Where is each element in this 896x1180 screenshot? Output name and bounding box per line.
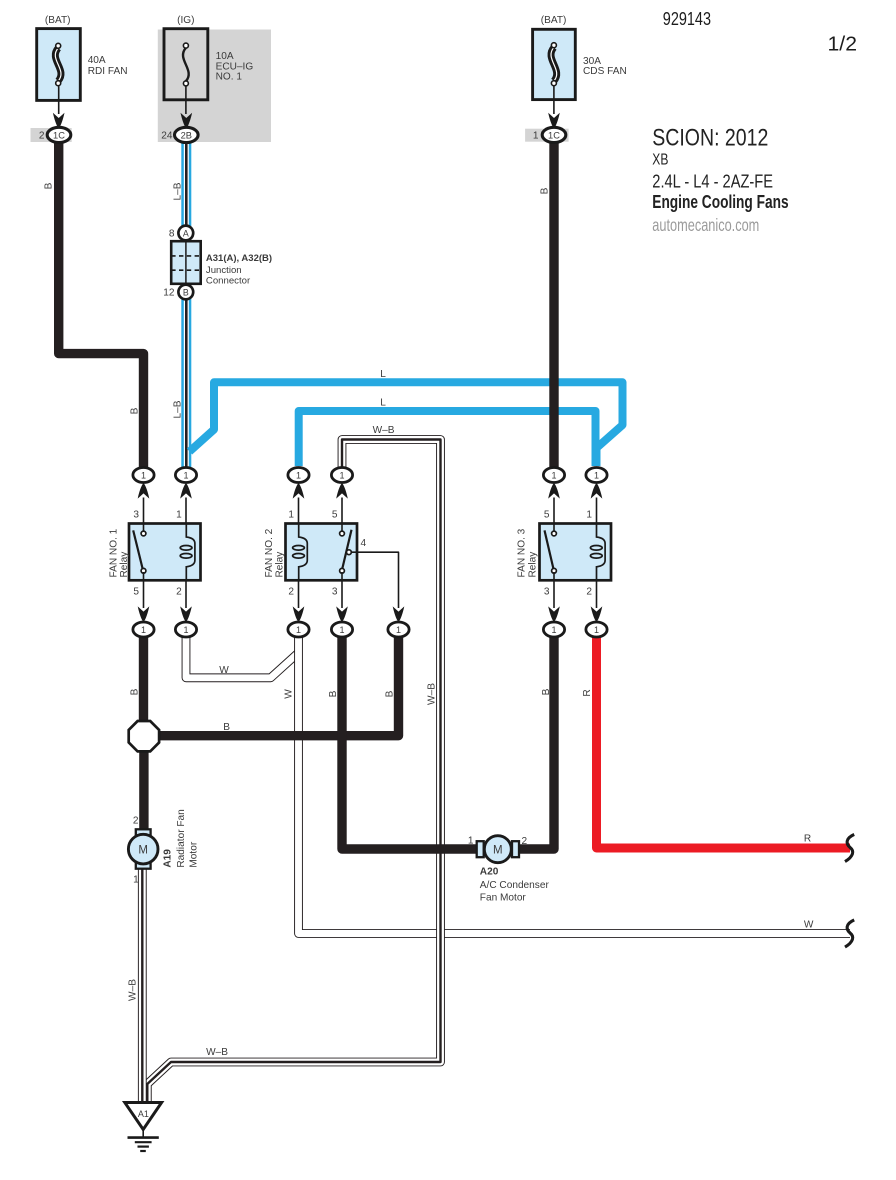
svg-text:L: L: [380, 398, 386, 409]
gray band behind connector 1C (right): [525, 129, 569, 142]
svg-text:CDS FAN: CDS FAN: [583, 66, 627, 77]
lead from fuse F1 to connector: [58, 86, 60, 114]
svg-text:3: 3: [332, 587, 338, 598]
svg-text:40A: 40A: [88, 55, 106, 66]
svg-text:A: A: [183, 228, 189, 238]
svg-text:automecanico.com: automecanico.com: [652, 215, 759, 235]
arrow up into oval: [138, 483, 150, 499]
relay K3 coil: [597, 524, 606, 581]
arrow up into oval: [336, 483, 348, 499]
svg-text:(IG): (IG): [177, 15, 194, 26]
connector oval 2B: [175, 127, 199, 142]
svg-text:1: 1: [288, 509, 294, 520]
svg-text:A1: A1: [138, 1109, 149, 1119]
svg-text:B: B: [328, 690, 339, 697]
connector oval below relay at x=298.5: [288, 622, 309, 637]
svg-text:B: B: [130, 688, 141, 695]
connector oval 1C right: [542, 127, 566, 142]
relay K3 switch: [553, 524, 555, 532]
svg-text:1: 1: [396, 625, 401, 635]
lead to relay: [185, 498, 187, 525]
svg-text:1: 1: [183, 470, 188, 480]
svg-text:W–B: W–B: [426, 683, 437, 705]
connector oval below relay at x=554: [543, 622, 564, 637]
junction node octagon: [129, 721, 159, 751]
svg-text:1: 1: [339, 470, 344, 480]
svg-text:A20: A20: [480, 867, 499, 878]
svg-text:RDI FAN: RDI FAN: [88, 66, 128, 77]
lead from relay down at x=596.5: [596, 580, 598, 608]
svg-text:B: B: [223, 722, 230, 733]
relay K1 coil: [186, 524, 195, 581]
connector oval above relay at x=143.5: [133, 468, 154, 483]
arrow up into oval: [293, 483, 305, 499]
junction connector A31(A) A32(B): [171, 241, 201, 284]
svg-text:1: 1: [133, 875, 139, 886]
arrow up into oval: [180, 483, 192, 499]
svg-text:B: B: [130, 407, 141, 414]
wire L-B from junction connector to relay1 pin1: [181, 297, 191, 467]
svg-text:Engine Cooling Fans: Engine Cooling Fans: [652, 192, 788, 212]
svg-text:1C: 1C: [548, 130, 560, 140]
svg-text:1: 1: [586, 509, 592, 520]
wire L-B from connector 2B to junction connector: [181, 140, 191, 228]
wire B bus from junction node to relay2 pin4: [156, 636, 399, 736]
arrow down into oval: [591, 606, 603, 622]
gray band behind connector 1C (left): [31, 128, 72, 142]
motor A19 radiator fan motor: [136, 829, 151, 836]
lead from fuse F2 to connector: [185, 86, 187, 114]
svg-text:FAN NO. 1: FAN NO. 1: [108, 528, 119, 577]
break symbol W wire: [845, 920, 854, 947]
svg-text:2: 2: [522, 836, 528, 847]
fuse F2 10A ECU-IG NO. 1: [164, 29, 208, 100]
svg-text:1: 1: [141, 470, 146, 480]
relay K2 FAN NO. 2 box: [286, 524, 358, 581]
wire W-B from motor A19 pin1 to ground A1: [138, 866, 147, 1101]
svg-text:W: W: [219, 665, 229, 676]
wire W from relay2 pin2 down and right to break: [299, 633, 851, 934]
fuse F1 40A RDI FAN: [37, 29, 81, 101]
svg-text:2: 2: [133, 816, 139, 827]
svg-text:W–B: W–B: [206, 1047, 228, 1058]
svg-text:1: 1: [533, 131, 539, 142]
connector oval below relay at x=398.5: [388, 622, 409, 637]
motor A20 A/C condenser fan motor: [477, 841, 484, 857]
svg-text:Relay: Relay: [119, 551, 130, 578]
lead from relay down at x=554: [553, 580, 555, 608]
arrow into connector 2B: [181, 113, 193, 129]
svg-text:5: 5: [332, 509, 338, 520]
wire B from junction node to motor A19 pin2: [139, 748, 148, 831]
svg-text:1: 1: [141, 625, 146, 635]
arrow down into oval: [336, 606, 348, 622]
svg-text:1: 1: [176, 509, 182, 520]
svg-text:2.4L - L4 - 2AZ-FE: 2.4L - L4 - 2AZ-FE: [652, 172, 773, 192]
svg-text:5: 5: [133, 587, 139, 598]
wire L from relay2 pin1 to relay3 pin1: [299, 411, 596, 466]
wire B from relay2 pin3 to motor A20 pin1: [342, 636, 478, 849]
svg-text:3: 3: [544, 587, 550, 598]
svg-text:24: 24: [161, 131, 173, 142]
svg-text:8: 8: [169, 229, 175, 240]
svg-text:1: 1: [468, 835, 474, 846]
connector oval above relay at x=298.5: [288, 468, 309, 483]
svg-text:SCION: 2012: SCION: 2012: [652, 124, 768, 151]
svg-text:12: 12: [163, 288, 175, 299]
relay K1 switch: [143, 524, 145, 532]
svg-text:XB: XB: [652, 152, 668, 169]
svg-text:FAN NO. 2: FAN NO. 2: [264, 528, 275, 577]
svg-text:B: B: [540, 187, 551, 194]
connector oval below relay at x=342: [331, 622, 352, 637]
svg-text:2: 2: [176, 587, 182, 598]
svg-text:R: R: [582, 689, 593, 696]
arrow down into oval: [138, 606, 150, 622]
svg-text:M: M: [138, 844, 148, 856]
svg-text:5: 5: [544, 509, 550, 520]
wire W-B loop from relay2 pin5 to ground A1: [147, 440, 440, 1102]
break symbol R wire: [845, 834, 854, 861]
connector oval above relay at x=596.5: [586, 468, 607, 483]
svg-text:L–B: L–B: [173, 182, 184, 200]
junction pin circle A: [178, 226, 193, 241]
arrow down into oval: [393, 606, 405, 622]
lead from relay down at x=298.5: [298, 580, 300, 608]
svg-text:B: B: [384, 690, 395, 697]
connector oval above relay at x=186: [175, 468, 196, 483]
svg-text:2B: 2B: [181, 130, 192, 140]
svg-text:4: 4: [361, 538, 367, 549]
relay K1 FAN NO. 1 box: [129, 524, 201, 581]
lead to relay: [298, 498, 300, 525]
wire B from relay3 pin3 to motor A20 pin2: [514, 636, 554, 849]
lead from relay down at x=186: [185, 580, 187, 608]
svg-text:2: 2: [39, 131, 45, 142]
arrow up into oval: [591, 483, 603, 499]
svg-text:(BAT): (BAT): [45, 15, 71, 26]
relay K2 coil: [299, 524, 308, 581]
arrow down into oval: [293, 606, 305, 622]
wire W from relay1 pin2 joining W net: [186, 633, 298, 678]
svg-text:NO. 1: NO. 1: [216, 72, 243, 83]
lead to relay: [341, 498, 343, 525]
svg-text:B: B: [541, 688, 552, 695]
connector oval above relay at x=554: [543, 468, 564, 483]
fuse F3 30A CDS FAN: [533, 29, 576, 99]
wire B from fuse F3 to relay3 pin5: [549, 140, 558, 468]
arrow down into oval: [180, 606, 192, 622]
arrow up into oval: [548, 483, 560, 499]
svg-text:(BAT): (BAT): [541, 15, 567, 26]
svg-text:1: 1: [296, 470, 301, 480]
svg-text:L: L: [380, 369, 386, 380]
svg-text:W–B: W–B: [128, 979, 139, 1001]
arrow down into oval: [548, 606, 560, 622]
svg-text:1: 1: [551, 625, 556, 635]
svg-text:Radiator Fan: Radiator Fan: [176, 809, 187, 867]
svg-text:1: 1: [339, 625, 344, 635]
arrow into connector 1C left: [53, 113, 65, 129]
lead from relay down at x=143.5: [143, 580, 145, 608]
svg-text:1: 1: [594, 625, 599, 635]
lead to relay: [143, 498, 145, 525]
relay K2 switch: [341, 524, 343, 532]
svg-text:Relay: Relay: [527, 551, 538, 578]
gray background box for IG fuse block: [158, 30, 271, 143]
svg-text:A31(A), A32(B): A31(A), A32(B): [206, 253, 272, 264]
svg-text:B: B: [44, 182, 55, 189]
svg-text:R: R: [804, 834, 811, 845]
svg-text:W–B: W–B: [373, 425, 395, 436]
svg-text:2: 2: [288, 587, 294, 598]
ground A1 triangle: [125, 1103, 162, 1130]
svg-text:1: 1: [183, 625, 188, 635]
connector oval 1C left: [47, 127, 71, 142]
wire B from fuse F1 to relay1 pin3: [59, 140, 144, 468]
lead to relay: [553, 498, 555, 525]
svg-text:1: 1: [594, 470, 599, 480]
svg-text:Junction: Junction: [206, 265, 242, 276]
svg-text:Motor: Motor: [188, 841, 199, 867]
svg-text:2: 2: [586, 587, 592, 598]
svg-text:1: 1: [296, 625, 301, 635]
svg-text:3: 3: [133, 509, 139, 520]
connector oval below relay at x=186: [175, 622, 196, 637]
lead from relay down at x=342: [341, 580, 343, 608]
svg-text:M: M: [493, 844, 503, 856]
svg-text:Fan Motor: Fan Motor: [480, 893, 527, 904]
svg-text:1C: 1C: [53, 130, 65, 140]
relay K2 pin4 wire to oval: [351, 552, 398, 608]
svg-text:L–B: L–B: [173, 400, 184, 418]
svg-text:W: W: [284, 689, 295, 699]
svg-text:929143: 929143: [663, 8, 711, 29]
ground bars: [128, 1136, 159, 1139]
connector oval below relay at x=143.5: [133, 622, 154, 637]
wire B from relay1 pin5 to junction node: [139, 636, 148, 724]
connector oval above relay at x=342: [331, 468, 352, 483]
svg-text:Relay: Relay: [275, 551, 286, 578]
lead to relay: [596, 498, 598, 525]
svg-text:Connector: Connector: [206, 275, 251, 286]
svg-text:1: 1: [551, 470, 556, 480]
ground stem: [142, 1130, 144, 1138]
svg-text:FAN NO. 3: FAN NO. 3: [517, 528, 528, 577]
svg-text:A19: A19: [163, 849, 174, 868]
lead from fuse F3 to connector: [553, 86, 555, 114]
wire L from relay1 pin1 tap to relay3 pin1: [190, 382, 623, 466]
svg-text:B: B: [183, 287, 189, 297]
svg-text:1/2: 1/2: [828, 34, 858, 56]
svg-text:W: W: [804, 920, 814, 931]
arrow into connector 1C right: [548, 113, 560, 129]
junction pin circle B: [178, 285, 193, 300]
svg-text:A/C Condenser: A/C Condenser: [480, 880, 550, 891]
connector oval below relay at x=596.5: [586, 622, 607, 637]
relay K3 FAN NO. 3 box: [540, 524, 612, 581]
wire R from relay3 pin2 to break: [597, 636, 851, 848]
